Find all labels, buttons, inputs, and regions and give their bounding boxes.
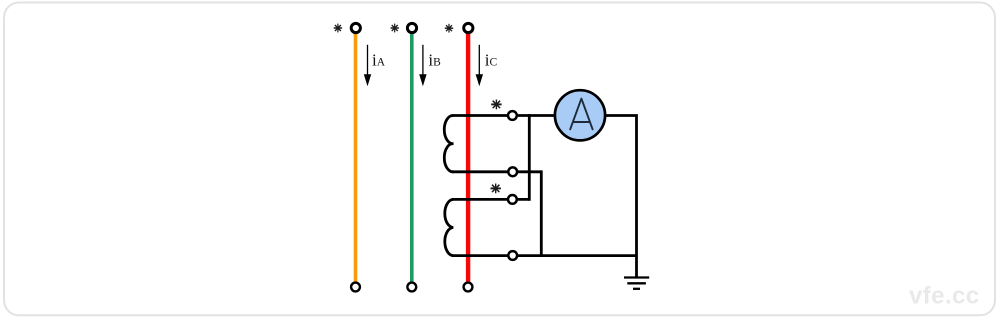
- wire CT2 bottom lead / return wire: [452, 254, 637, 257]
- phase C conductor: [466, 34, 470, 282]
- terminal CT2 S2: [508, 251, 517, 260]
- svg-text:vfe.cc: vfe.cc: [909, 283, 979, 310]
- CT1 coil: [444, 115, 453, 171]
- current arrow iA: [364, 45, 371, 87]
- wire junction vertical CT1-bottom to return: [540, 170, 543, 257]
- phase B conductor: [410, 33, 414, 282]
- current arrow iC: [476, 45, 483, 87]
- terminal phase A bottom: [351, 283, 360, 292]
- terminal CT1 S1: [508, 111, 517, 120]
- wire CT1 bottom lead: [452, 170, 541, 173]
- terminal phase A top: [351, 23, 360, 32]
- polarity mark phase A: [334, 24, 342, 33]
- polarity mark CT1: [491, 100, 501, 110]
- polarity mark phase B: [391, 24, 399, 33]
- polarity mark CT2: [491, 184, 501, 194]
- wire ammeter to ground vertical: [606, 116, 637, 278]
- current arrow iB: [419, 45, 426, 87]
- ammeter A: [555, 90, 605, 140]
- terminal phase B top: [407, 23, 416, 32]
- wire junction vertical CT1-top to CT2-top: [528, 114, 531, 201]
- terminal phase C bottom: [464, 283, 473, 292]
- CT2 coil: [445, 199, 454, 255]
- phase A conductor: [354, 33, 358, 282]
- terminal phase B bottom: [407, 283, 416, 292]
- terminal phase C top: [464, 23, 473, 32]
- wire CT2 top lead: [452, 198, 529, 201]
- wire CT1 top lead to ammeter: [452, 114, 554, 117]
- terminal CT1 S2: [508, 167, 517, 176]
- terminal CT2 S1: [508, 195, 517, 204]
- ground: [624, 278, 649, 289]
- polarity mark phase C: [445, 24, 453, 33]
